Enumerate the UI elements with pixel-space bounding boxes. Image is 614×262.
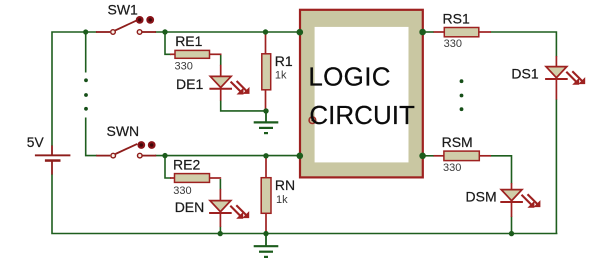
svg-text:LOGIC: LOGIC xyxy=(308,61,390,91)
svg-text:330: 330 xyxy=(444,38,462,50)
svg-text:1k: 1k xyxy=(276,194,288,206)
svg-text:330: 330 xyxy=(173,185,191,197)
svg-text:SW1: SW1 xyxy=(108,1,139,17)
svg-text:330: 330 xyxy=(443,162,461,174)
svg-text:DSM: DSM xyxy=(466,189,497,205)
svg-text:SWN: SWN xyxy=(107,123,140,139)
svg-text:RSM: RSM xyxy=(442,134,473,150)
svg-text:330: 330 xyxy=(175,61,193,73)
svg-text:1k: 1k xyxy=(275,69,287,81)
svg-text:5V: 5V xyxy=(27,135,45,150)
svg-text:RE2: RE2 xyxy=(173,157,200,173)
svg-text:DE1: DE1 xyxy=(176,76,203,92)
svg-text:CIRCUIT: CIRCUIT xyxy=(309,100,415,130)
svg-text:RE1: RE1 xyxy=(175,33,202,49)
svg-text:RN: RN xyxy=(275,177,295,193)
svg-text:DS1: DS1 xyxy=(511,66,538,82)
svg-text:R1: R1 xyxy=(275,53,293,69)
svg-text:RS1: RS1 xyxy=(443,10,470,26)
svg-text:DEN: DEN xyxy=(175,199,205,215)
